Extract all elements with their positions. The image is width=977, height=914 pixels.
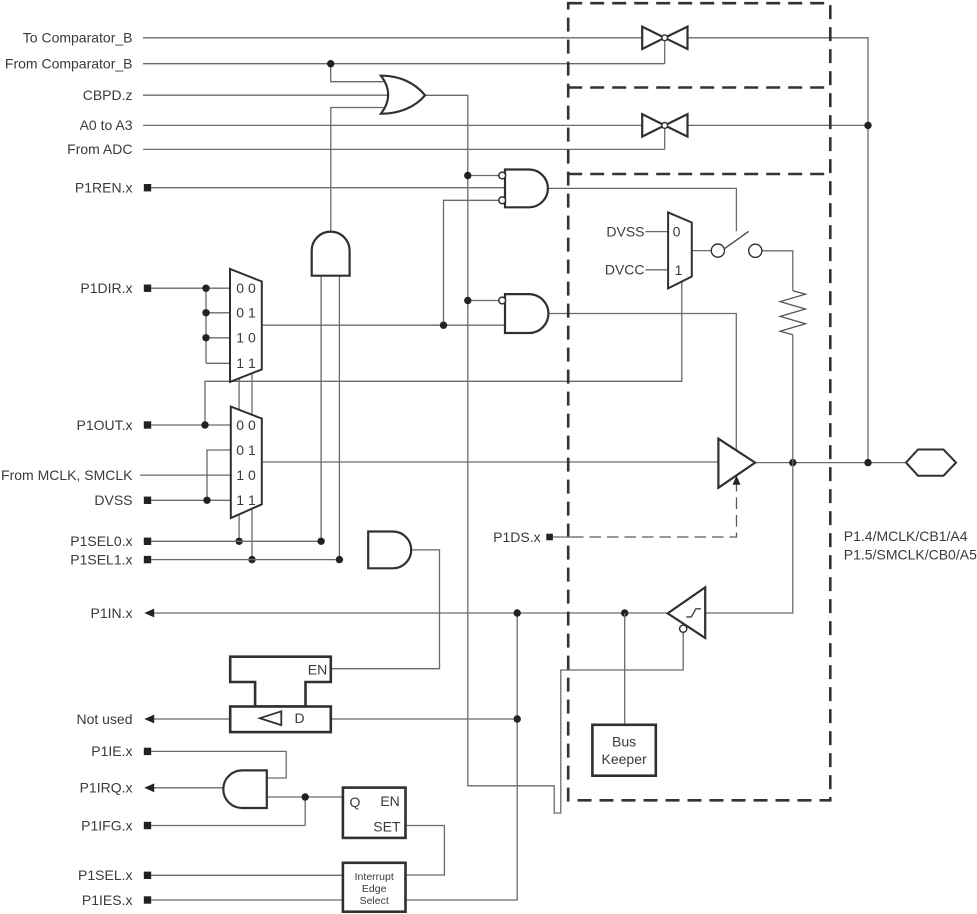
wire U3 lower bubble input from M1 output — [444, 200, 499, 325]
label M1 00 — [236, 280, 256, 296]
wire Schmitt enable bubble stem — [682, 632, 684, 637]
clock triangle D latch — [260, 711, 281, 725]
label M2 11 — [236, 492, 256, 508]
label Bus — [612, 734, 636, 750]
node junction DVSS branch — [203, 497, 210, 504]
node junction P1SEL1 to U2 leg — [336, 556, 343, 563]
svg-text:P1.4/MCLK/CB1/A4: P1.4/MCLK/CB1/A4 — [844, 528, 968, 544]
bubble U3 upper input — [499, 172, 506, 179]
wire AND U6 output to EN latch — [331, 550, 440, 669]
label P1IE.x — [91, 743, 132, 759]
wire NAND U5 output to driver enable — [548, 314, 736, 451]
label Keeper — [602, 751, 647, 767]
wire NAND U3 output to switch control — [548, 188, 737, 231]
svg-text:Not used: Not used — [76, 711, 132, 727]
bubble U3 lower input — [499, 197, 506, 204]
label P1SEL.x — [78, 867, 132, 883]
svg-text:Q: Q — [350, 794, 361, 810]
svg-text:1: 1 — [675, 262, 683, 278]
arrow P1IRQ.x — [144, 783, 154, 792]
hysteresis glyph U8 — [686, 609, 701, 617]
wire stub U3 upper bubble input — [468, 175, 499, 177]
wire P1DIR distribution vertical — [205, 288, 207, 363]
label M3 0 — [673, 223, 681, 239]
wire P1IN.x line from Schmitt U8 — [154, 612, 668, 614]
node junction P1OUT branch — [201, 421, 208, 428]
svg-text:From ADC: From ADC — [67, 141, 132, 157]
wire DVSS branch to mux M2 input 01 — [207, 450, 231, 500]
wire stub mux M1 input 11 — [206, 362, 230, 364]
label EN flag latch — [380, 793, 399, 809]
label To Comparator_B — [23, 29, 133, 45]
switch S1 contact left — [711, 244, 724, 257]
wire P1IFG.x line — [151, 825, 305, 827]
node junction P1DIR 01 — [202, 309, 209, 316]
node junction select S0 on P1SEL0 — [235, 538, 242, 545]
node junction pullup resistor on pad line — [789, 459, 796, 466]
svg-text:DVSS: DVSS — [94, 492, 132, 508]
wire stub DVSS to mux M3 — [646, 231, 669, 233]
wire R1 to Schmitt U8 input — [705, 335, 793, 613]
wire T1 control stem — [664, 41, 666, 64]
transmission gate T2 A0 to A3 — [642, 114, 687, 136]
svg-text:P1OUT.x: P1OUT.x — [76, 417, 132, 433]
node junction P1DIR 00 — [202, 285, 209, 292]
label From Comparator_B — [5, 56, 133, 72]
svg-text:P1IE.x: P1IE.x — [91, 743, 132, 759]
wire AND U2 output up to OR U1 input — [331, 108, 384, 232]
block Bus Keeper — [592, 725, 655, 776]
svg-text:P1DIR.x: P1DIR.x — [80, 280, 132, 296]
wire P1DS.x solid stub — [553, 536, 572, 538]
pad hexagon P1.4/P1.5 — [906, 450, 956, 476]
svg-text:P1SEL.x: P1SEL.x — [78, 867, 132, 883]
node junction D latch branch — [514, 715, 521, 722]
wire DVSS line to mux M2 input 11 — [151, 499, 231, 501]
wire AND U2 right leg to P1SEL1 — [338, 276, 340, 560]
svg-text:0 0: 0 0 — [236, 280, 256, 296]
wire mux M1 output to NAND U5 — [262, 324, 505, 326]
wire AND U2 left leg to P1SEL0 — [320, 276, 322, 542]
svg-text:1 1: 1 1 — [236, 492, 256, 508]
svg-text:DVCC: DVCC — [605, 262, 645, 278]
label SET — [373, 819, 401, 835]
svg-text:A0 to A3: A0 to A3 — [80, 117, 133, 133]
node junction P1SEL0 to U2 leg — [317, 538, 324, 545]
mux M1 P1DIR — [230, 269, 262, 382]
label DVCC mux input — [605, 262, 645, 278]
wire stub mux M1 input 10 — [206, 337, 230, 339]
svg-text:From Comparator_B: From Comparator_B — [5, 56, 133, 72]
wire From ADC line — [143, 148, 665, 150]
label EN latch — [308, 662, 327, 678]
wire select S0 mux M2 to P1SEL0 — [238, 514, 240, 541]
label Not used — [76, 711, 132, 727]
svg-text:1 0: 1 0 — [236, 467, 256, 483]
terminal P1DS.x — [546, 534, 553, 541]
and-gate U6 P1SEL — [368, 532, 411, 569]
node junction M1 output branch — [440, 322, 447, 329]
svg-text:From MCLK, SMCLK: From MCLK, SMCLK — [1, 467, 133, 483]
and-gate U2 — [312, 232, 350, 276]
wire D latch input from P1IN net — [331, 718, 517, 720]
label From MCLK SMCLK — [1, 467, 133, 483]
buffer U7 output driver — [718, 439, 755, 488]
node junction P1IN to Bus Keeper — [621, 609, 628, 616]
wire mux M3 output to switch — [692, 250, 712, 252]
label From ADC — [67, 141, 132, 157]
dashed module boundary box — [568, 3, 830, 800]
node junction Q and P1IFG — [302, 793, 309, 800]
label M2 10 — [236, 467, 256, 483]
wire P1DIR.x line — [151, 287, 230, 289]
wire stub mux M1 input 01 — [206, 312, 230, 314]
wire P1SEL1.x line — [151, 559, 339, 561]
resistor R1 — [780, 291, 805, 335]
wire P1OUT.x line — [151, 424, 231, 426]
wire OR U1 output net to Schmitt enable bubble — [425, 95, 683, 813]
label P1OUT.x — [76, 417, 132, 433]
terminal P1SEL1.x — [144, 556, 151, 563]
svg-text:1 0: 1 0 — [236, 330, 256, 346]
svg-text:P1IES.x: P1IES.x — [82, 892, 133, 908]
label CBPD.z — [83, 87, 133, 103]
svg-text:Bus: Bus — [612, 734, 636, 750]
label P1IN.x — [90, 605, 132, 621]
wire From MCLK SMCLK line — [140, 474, 231, 476]
node junction pad column on pad line — [864, 459, 871, 466]
terminal P1SEL0.x — [144, 538, 151, 545]
label Interrupt — [355, 871, 394, 883]
label Q — [350, 794, 361, 810]
label M3 1 — [675, 262, 683, 278]
wire Q of flag latch to AND U9 — [267, 796, 343, 798]
svg-text:To Comparator_B: To Comparator_B — [23, 29, 133, 45]
arrow P1IN.x — [144, 609, 154, 618]
label DVSS mux input — [606, 223, 644, 239]
svg-text:EN: EN — [380, 793, 399, 809]
svg-text:Interrupt: Interrupt — [355, 871, 394, 883]
svg-text:P1IRQ.x: P1IRQ.x — [80, 780, 133, 796]
label M2 00 — [236, 417, 256, 433]
dashed divider adc section — [568, 173, 830, 176]
bubble U5 upper input — [499, 297, 506, 304]
label P1IES.x — [82, 892, 133, 908]
terminal P1OUT.x — [144, 421, 151, 428]
mux M3 pullup pulldown select — [668, 212, 692, 288]
label A0 to A3 — [80, 117, 133, 133]
svg-text:P1IN.x: P1IN.x — [90, 605, 132, 621]
and-gate U9 interrupt — [223, 770, 267, 808]
latch D block — [230, 707, 331, 733]
block Interrupt Edge Select — [343, 863, 406, 912]
svg-text:0 0: 0 0 — [236, 417, 256, 433]
wire From Comparator_B branch to OR gate input — [331, 64, 384, 82]
terminal P1DIR.x — [144, 285, 151, 292]
wire P1IN net vertical to interrupt edge select — [406, 613, 518, 900]
switch S1 lever — [725, 231, 749, 248]
block flag latch Q EN SET — [343, 788, 406, 838]
node junction P1IN branch down — [514, 609, 521, 616]
mux M2 P1OUT — [231, 407, 262, 518]
wire P1OUT branch to mux M3 select — [205, 282, 682, 426]
node junction U1 output to U5 — [464, 297, 471, 304]
transmission gate T1 to Comparator_B — [642, 27, 687, 49]
terminal P1IE.x — [144, 748, 151, 755]
svg-text:Keeper: Keeper — [602, 751, 647, 767]
svg-text:CBPD.z: CBPD.z — [83, 87, 133, 103]
label DVSS — [94, 492, 132, 508]
terminal DVSS — [144, 497, 151, 504]
terminal P1REN.x — [144, 184, 151, 191]
arrowhead P1DS control — [733, 476, 741, 485]
dashed wire P1DS.x to driver — [572, 484, 737, 538]
svg-text:P1.5/SMCLK/CB0/A5: P1.5/SMCLK/CB0/A5 — [844, 547, 977, 563]
label P1IFG.x — [81, 817, 132, 833]
label Edge — [362, 883, 387, 895]
wire Bus Keeper to P1IN line — [624, 613, 626, 725]
svg-text:Edge: Edge — [362, 883, 387, 895]
label M2 01 — [236, 442, 256, 458]
label D latch — [295, 710, 305, 726]
wire P1SEL0.x line — [151, 540, 321, 542]
node junction U1 output to U3 — [464, 172, 471, 179]
svg-text:EN: EN — [308, 662, 327, 678]
wire stub U5 bubble input — [468, 300, 499, 302]
svg-text:SET: SET — [373, 819, 401, 835]
label M1 10 — [236, 330, 256, 346]
schmitt buffer U8 input — [668, 587, 706, 638]
node junction select S1 on P1SEL1 — [248, 556, 255, 563]
dashed divider comparator section — [568, 86, 830, 89]
wire select S1 mux M2 to P1SEL1 — [251, 509, 253, 560]
wire transmission gate T1 output to pad column — [688, 38, 869, 463]
wire A0 to A3 line — [143, 124, 642, 126]
wire To Comparator_B line — [143, 37, 642, 39]
label P1REN.x — [75, 180, 133, 196]
wire mux M2 output to output driver — [262, 461, 719, 463]
switch S1 contact right — [749, 244, 762, 257]
svg-text:DVSS: DVSS — [606, 223, 644, 239]
latch EN block — [230, 657, 331, 707]
wire edge select to SET of flag latch — [406, 826, 445, 876]
wire transmission gate T2 output to pad column — [688, 124, 869, 126]
svg-text:0 1: 0 1 — [236, 305, 256, 321]
label pad name line1 — [844, 528, 968, 544]
wire P1IRQ.x line from AND U9 — [154, 787, 226, 789]
wire stub DVCC to mux M3 — [646, 269, 669, 271]
wire CBPD.z line to OR gate — [143, 94, 388, 96]
terminal P1IES.x — [144, 896, 151, 903]
svg-text:P1IFG.x: P1IFG.x — [81, 817, 132, 833]
wire From Comparator_B line — [143, 63, 665, 65]
wire select S1 between muxes — [251, 373, 253, 415]
svg-text:1 1: 1 1 — [236, 355, 256, 371]
svg-text:P1SEL0.x: P1SEL0.x — [70, 533, 132, 549]
terminal P1SEL.x — [144, 872, 151, 879]
wire pad line — [755, 462, 906, 464]
label Select — [360, 895, 389, 907]
wire P1SEL.x line — [151, 874, 343, 876]
label M1 01 — [236, 305, 256, 321]
label P1IRQ.x — [80, 780, 133, 796]
wire P1REN.x line to NAND U3 — [151, 187, 505, 189]
node junction P1DIR 10 — [202, 334, 209, 341]
svg-text:P1DS.x: P1DS.x — [493, 529, 540, 545]
wire switch to resistor R1 — [762, 251, 793, 291]
svg-text:D: D — [295, 710, 305, 726]
label pad name line2 — [844, 547, 977, 563]
label P1SEL1.x — [70, 551, 132, 567]
label P1DIR.x — [80, 280, 132, 296]
wire P1IES.x line — [151, 899, 343, 901]
label M1 11 — [236, 355, 256, 371]
label P1SEL0.x — [70, 533, 132, 549]
wire P1IE.x line to AND U9 — [151, 751, 286, 778]
arrow Not used — [144, 715, 154, 724]
wire select S0 between muxes — [238, 378, 240, 410]
wire Not used line to D latch — [154, 718, 231, 720]
svg-text:0 1: 0 1 — [236, 442, 256, 458]
svg-text:0: 0 — [673, 223, 681, 239]
svg-text:Select: Select — [360, 895, 389, 907]
svg-text:P1SEL1.x: P1SEL1.x — [70, 551, 132, 567]
node junction From Comparator_B — [327, 60, 334, 67]
nand-gate U5 — [505, 294, 548, 333]
wire P1IFG branch — [304, 797, 306, 826]
or-gate U1 — [381, 76, 425, 114]
node junction T2 output on pad column — [864, 122, 871, 129]
wire T2 control stem — [664, 129, 666, 150]
svg-text:P1REN.x: P1REN.x — [75, 180, 133, 196]
terminal P1IFG.x — [144, 822, 151, 829]
nand-gate U3 — [505, 170, 548, 208]
label P1DS.x — [493, 529, 540, 545]
bubble U8 enable — [680, 625, 687, 632]
